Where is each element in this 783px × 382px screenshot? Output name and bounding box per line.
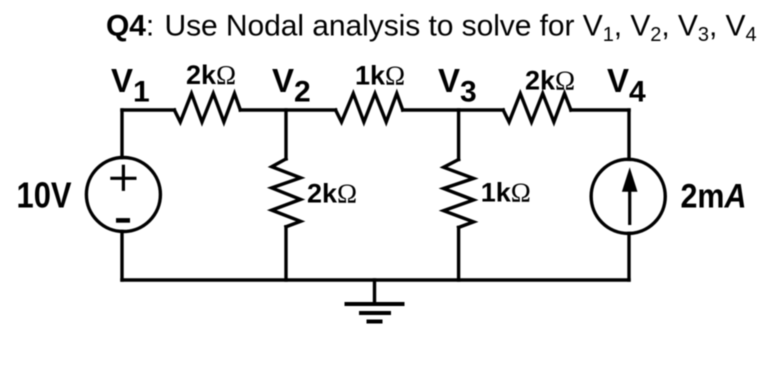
wire node V2 stub down — [284, 110, 287, 159]
svg-text:V1: V1 — [111, 62, 150, 109]
resistor R2 1k horizontal — [336, 94, 403, 123]
svg-text:2mA: 2mA — [681, 178, 747, 216]
wire R4 to bottom rail — [284, 227, 287, 280]
voltage source VS1 circle — [86, 158, 160, 232]
svg-text:2kΩ: 2kΩ — [186, 60, 236, 90]
svg-text:1kΩ: 1kΩ — [355, 60, 405, 90]
current source arrow head — [622, 167, 638, 192]
resistor R1 2k horizontal — [174, 94, 240, 123]
svg-text:V2: V2 — [272, 62, 311, 109]
ground bar 2 — [359, 311, 391, 315]
wire R1 to R2 through node V2 — [240, 108, 335, 111]
resistor R3 2k horizontal — [503, 94, 571, 123]
wire R2 to R3 through node V3 — [403, 108, 504, 111]
wire voltage source to bottom rail — [120, 232, 123, 281]
voltage source plus sign — [110, 165, 136, 191]
ground bar 1 — [345, 302, 405, 306]
bottom rail wire — [122, 278, 629, 281]
svg-text:1kΩ: 1kΩ — [481, 177, 531, 207]
resistor R5 1k vertical at V3 — [444, 160, 474, 228]
current source IS1 circle — [591, 159, 665, 233]
resistor R4 2k vertical at V2 — [272, 159, 301, 227]
wire R3 to V4 corner — [571, 108, 629, 111]
ground stem — [373, 280, 376, 304]
current source arrow shaft — [628, 188, 631, 225]
svg-text:V4: V4 — [607, 62, 646, 109]
wire V1 down to voltage source — [120, 110, 123, 158]
svg-text:2kΩ: 2kΩ — [307, 179, 357, 209]
ground bar 3 — [367, 320, 383, 324]
voltage source minus sign — [116, 218, 130, 223]
svg-text:2kΩ: 2kΩ — [525, 66, 575, 96]
wire node V3 stub down — [457, 110, 460, 160]
wire current source to bottom rail — [627, 233, 630, 280]
wire top rail segment V1 to R1 — [122, 108, 174, 111]
svg-text:V3: V3 — [438, 62, 477, 109]
svg-text:Q4: Use Nodal analysis to solv: Q4: Use Nodal analysis to solve for V1, … — [106, 10, 757, 46]
wire V4 down to current source — [627, 110, 630, 159]
wire R5 to bottom rail — [457, 227, 460, 280]
svg-text:10V: 10V — [17, 175, 72, 216]
